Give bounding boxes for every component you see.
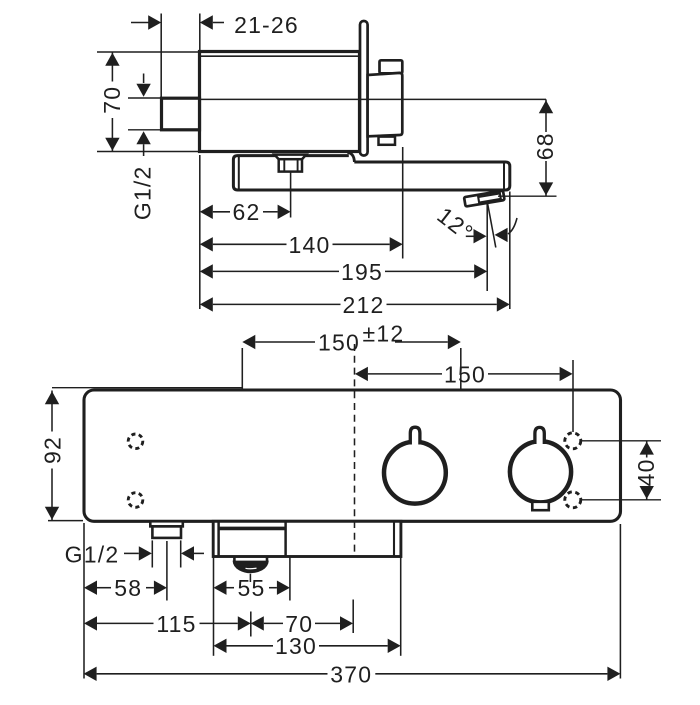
aerator outlet ellipse	[233, 558, 236, 562]
dim 40	[582, 440, 662, 442]
svg-text:150: 150	[444, 362, 486, 388]
wall supply pipe protrusion	[162, 98, 200, 130]
G1/2 pipe dimension arrows	[143, 74, 145, 84]
dim 70 front	[251, 616, 264, 630]
protrusion bottom extension stub	[128, 129, 161, 131]
svg-text:115: 115	[156, 611, 196, 637]
left mounting holes dashed	[128, 434, 143, 449]
dim 150±12	[242, 335, 255, 349]
escutcheon plate edge-on	[360, 21, 368, 156]
pipe axis reference line	[200, 98, 547, 100]
hose connection hex nut on bar	[275, 155, 307, 160]
spout center extension at dim line	[250, 612, 252, 637]
spout bar front view	[213, 521, 401, 556]
svg-text:140: 140	[289, 232, 331, 258]
150 right extension into body	[572, 360, 574, 432]
dim 140	[200, 237, 213, 251]
dim 70	[97, 51, 198, 53]
svg-text:70: 70	[99, 86, 125, 114]
svg-text:130: 130	[275, 633, 317, 659]
bar step under body	[347, 152, 354, 162]
dim 55	[214, 581, 227, 595]
svg-text:62: 62	[233, 199, 261, 225]
center dashed line	[354, 344, 356, 556]
dim 130	[214, 639, 227, 653]
body inner top edge line	[201, 55, 358, 57]
dim 62	[200, 205, 213, 219]
svg-text:21-26: 21-26	[234, 12, 299, 38]
left knob (diverter)	[384, 442, 446, 504]
protrusion top extension stub	[128, 97, 161, 99]
svg-text:G1/2: G1/2	[65, 541, 120, 567]
bar right end cap line	[503, 163, 505, 189]
dim 195	[200, 264, 213, 278]
dim 58	[84, 581, 97, 595]
handle bottom tab	[379, 137, 396, 145]
svg-text:92: 92	[40, 436, 66, 464]
thermostat body side view	[200, 52, 360, 152]
svg-text:G1/2: G1/2	[129, 165, 155, 220]
svg-text:58: 58	[114, 575, 142, 601]
bar left end cap line	[238, 157, 240, 189]
spout tip nozzle (12 deg)	[464, 191, 505, 207]
dim 21-26	[131, 22, 149, 24]
svg-text:40: 40	[633, 458, 659, 486]
mixer body front view	[84, 390, 621, 521]
dim 115	[84, 616, 97, 630]
dim 68	[498, 195, 557, 197]
right mounting holes dashed	[565, 433, 581, 449]
svg-text:150: 150	[318, 329, 360, 355]
dim 370	[84, 667, 97, 681]
hex nut center extension line	[290, 173, 292, 218]
dim 92	[51, 391, 53, 432]
svg-text:212: 212	[343, 292, 385, 318]
dim 212	[200, 297, 213, 311]
svg-text:195: 195	[341, 259, 383, 285]
svg-text:370: 370	[330, 661, 372, 687]
dim 150	[355, 367, 368, 381]
12 deg angle dimension	[486, 204, 488, 292]
svg-text:55: 55	[238, 575, 266, 601]
spout bar side outline	[233, 156, 509, 190]
handle top tab	[380, 60, 403, 73]
svg-text:68: 68	[532, 132, 558, 160]
left inlet fitting front view	[150, 521, 183, 526]
body top extension line	[52, 387, 243, 389]
right knob (thermostat)	[510, 441, 571, 502]
svg-text:12°: 12°	[432, 202, 478, 246]
handle body	[368, 73, 403, 136]
